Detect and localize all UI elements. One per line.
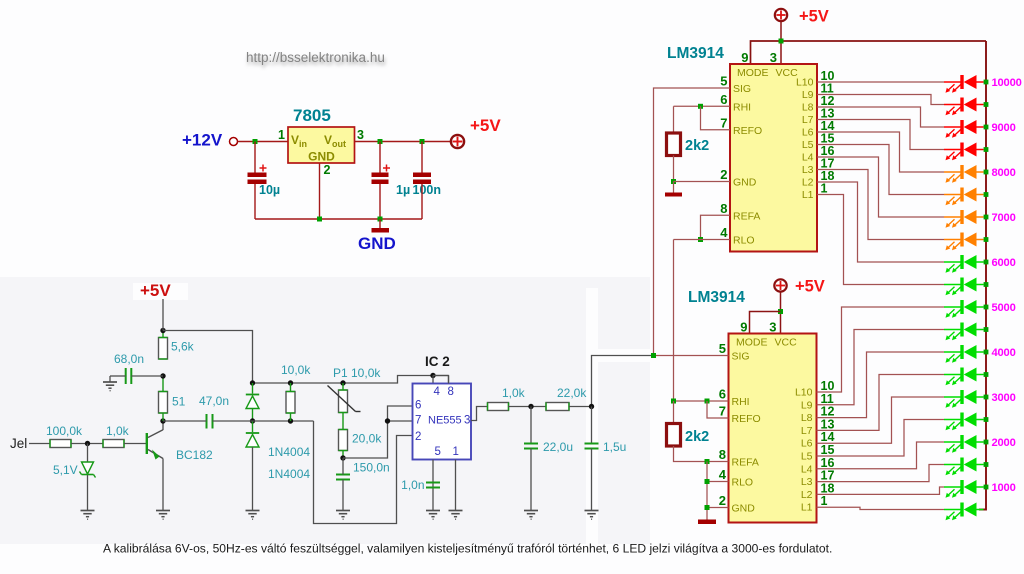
wire L9 to LED2 — [817, 95, 944, 105]
LED D16 — [944, 413, 984, 431]
capacitor C 10u — [248, 173, 267, 178]
LED D6 — [944, 188, 984, 206]
svg-text:L2: L2 — [802, 177, 814, 189]
svg-text:LM3914: LM3914 — [667, 45, 724, 62]
junction LED D7 anode — [984, 215, 989, 220]
+5V terminal upper — [775, 9, 787, 21]
junction LED D17 anode — [984, 440, 989, 445]
LED D20 — [944, 503, 984, 521]
wire pin 6 jog — [388, 406, 413, 421]
svg-text:SIG: SIG — [733, 83, 751, 95]
junction SIG node — [651, 353, 656, 358]
wire 5,6k top lead — [162, 331, 164, 338]
junction RLO lower — [705, 479, 710, 484]
resistor R5 5,6k — [159, 338, 168, 360]
wire L3 to LED18 — [817, 465, 945, 482]
svg-text:4: 4 — [720, 225, 728, 240]
wire 7805 gnd stub — [319, 163, 321, 219]
junction LED D4 anode — [984, 147, 989, 152]
junction RHI lower — [671, 399, 676, 404]
svg-text:3: 3 — [464, 415, 470, 427]
svg-text:L10: L10 — [795, 387, 813, 399]
svg-text:RHI: RHI — [733, 101, 751, 113]
wire R2 bottom lead — [674, 446, 729, 462]
wire L8 to LED3 — [817, 107, 944, 127]
junction vcc lower — [778, 309, 783, 314]
svg-text:L9: L9 — [801, 399, 813, 411]
diode D21 zener 5,1V — [82, 462, 94, 474]
wire R2 top lead — [673, 401, 675, 424]
svg-text:A kalibrálása 6V-os, 50Hz-es v: A kalibrálása 6V-os, 50Hz-es váltó feszü… — [103, 542, 832, 556]
svg-text:GND: GND — [733, 177, 757, 189]
svg-text:1: 1 — [278, 128, 285, 142]
wire RHI lower — [674, 400, 729, 402]
wire R9 to node — [508, 406, 546, 408]
junction LED D13 anode — [984, 350, 989, 355]
wire to C 1u — [379, 142, 381, 173]
junction node A r10k — [288, 380, 293, 385]
svg-text:22,0k: 22,0k — [557, 386, 587, 400]
wire C10u to rail — [254, 184, 256, 219]
wire R3 to node — [71, 443, 103, 445]
ground 150n cap — [336, 511, 350, 520]
junction node A diode — [250, 380, 255, 385]
svg-text:http://bsselektronika.hu: http://bsselektronika.hu — [246, 50, 385, 65]
svg-text:L9: L9 — [802, 89, 814, 101]
svg-text:150,0n: 150,0n — [353, 461, 390, 475]
svg-text:10000: 10000 — [992, 77, 1022, 89]
junction LED D8 anode — [984, 237, 989, 242]
junction LED D12 anode — [984, 327, 989, 332]
+5V terminal lower — [774, 279, 786, 291]
wire D11 bottom lead — [252, 409, 254, 422]
wire 51 bottom lead — [162, 414, 164, 422]
svg-text:VCC: VCC — [775, 337, 798, 349]
wire RLO lower — [707, 481, 729, 483]
LED D4 — [944, 143, 984, 161]
svg-text:2: 2 — [719, 493, 726, 508]
junction RHI-REFO lower — [705, 399, 710, 404]
junction input node — [253, 139, 258, 144]
resistor R2 2k2 lower — [667, 424, 681, 447]
capacitor C7 150,0n — [336, 475, 350, 480]
capacitor C 100n — [413, 173, 431, 178]
LED D15 — [944, 390, 984, 408]
wire +5V down — [162, 299, 164, 331]
junction C1u top — [378, 139, 383, 144]
ground diode chain — [246, 511, 260, 520]
LED D18 — [944, 458, 984, 476]
svg-text:10,0k: 10,0k — [281, 363, 311, 377]
wire C10 top — [591, 407, 593, 444]
wire R4 to base — [124, 443, 146, 445]
svg-text:L5: L5 — [801, 451, 813, 463]
capacitor C 1u — [372, 173, 389, 178]
wire GND pin upper — [674, 181, 731, 183]
+5V output terminal — [451, 135, 464, 148]
svg-text:1N4004: 1N4004 — [268, 467, 310, 481]
junction LED D18 anode — [984, 462, 989, 467]
wire L4 to LED17 — [817, 442, 945, 469]
wire Jel input — [29, 443, 50, 445]
wire SIG lower red — [654, 355, 729, 357]
svg-text:4: 4 — [719, 467, 727, 482]
svg-text:8: 8 — [720, 201, 727, 216]
svg-text:3: 3 — [770, 50, 777, 65]
junction timing node — [340, 455, 345, 460]
wire 555 pin3 out — [471, 407, 487, 421]
wire 555 pin8 stub — [448, 376, 450, 384]
svg-text:20,0k: 20,0k — [352, 432, 382, 446]
U1 LM3914 box — [730, 64, 817, 252]
resistor R6 51 — [159, 392, 168, 414]
wire timing to C7 — [342, 458, 344, 475]
junction filter node 1 — [528, 404, 533, 409]
junction LED D15 anode — [984, 395, 989, 400]
junction LED D16 anode — [984, 417, 989, 422]
junction +5V rail node — [160, 328, 165, 333]
P1 wiper arrow — [328, 386, 356, 412]
ground zener — [81, 511, 95, 520]
wire collector — [162, 421, 164, 430]
svg-text:2: 2 — [415, 431, 421, 443]
svg-text:REFO: REFO — [732, 413, 761, 425]
input terminal circle — [230, 138, 238, 146]
junction LED D2 anode — [984, 102, 989, 107]
ground 555 pin1 — [449, 511, 463, 520]
junction pin6-7 — [385, 418, 390, 423]
junction LED D5 anode — [984, 170, 989, 175]
wire R10 to node — [569, 406, 592, 408]
gnd symbol stub — [379, 219, 381, 228]
GND bar upper — [665, 193, 682, 197]
junction R1-GND upper — [671, 179, 676, 184]
wire RHI upper — [674, 105, 731, 107]
svg-text:SIG: SIG — [732, 351, 750, 363]
svg-text:9000: 9000 — [992, 122, 1016, 134]
svg-text:L10: L10 — [796, 77, 814, 89]
wire L6 to LED5 — [817, 132, 944, 172]
svg-text:5,1V: 5,1V — [53, 463, 78, 477]
wire C10 to ground — [591, 449, 593, 511]
capacitor C9 22,0u — [524, 444, 538, 449]
wire L3 to LED8 — [817, 170, 944, 240]
svg-text:8: 8 — [448, 386, 454, 398]
wire +5V stub lower — [780, 293, 782, 334]
wire 7805 output — [355, 141, 451, 143]
wire P1 top lead — [342, 383, 344, 390]
svg-text:2: 2 — [324, 163, 331, 177]
wire zener top lead — [87, 444, 89, 463]
svg-text:8000: 8000 — [992, 167, 1016, 179]
wire L7 to LED4 — [817, 120, 944, 150]
GND bar lower — [698, 520, 716, 525]
svg-text:+5V: +5V — [470, 116, 501, 135]
wire L5 to LED16 — [817, 420, 945, 457]
svg-text:+5V: +5V — [795, 278, 825, 296]
resistor R4 1,0k — [103, 440, 124, 448]
LED D8 — [944, 233, 984, 251]
wire R7 bottom lead — [290, 413, 292, 421]
svg-text:L1: L1 — [802, 189, 814, 201]
IC1 7805 box — [288, 127, 355, 163]
junction LED D1 anode — [984, 80, 989, 85]
wire RLO upper — [674, 239, 731, 241]
svg-text:1N4004: 1N4004 — [268, 445, 310, 459]
svg-text:L3: L3 — [801, 476, 813, 488]
wire P1 to R8 — [342, 413, 344, 430]
resistor R1 2k2 upper — [667, 133, 681, 156]
svg-text:100n: 100n — [413, 183, 442, 197]
svg-text:L3: L3 — [802, 164, 814, 176]
svg-text:6000: 6000 — [992, 257, 1016, 269]
junction rail gnd — [378, 217, 383, 222]
svg-text:L8: L8 — [802, 102, 814, 114]
resistor R7 10,0k — [286, 392, 295, 414]
svg-text:5: 5 — [719, 341, 726, 356]
wire node B to pin 2 — [314, 421, 413, 524]
white patch around vertical wire x591 — [586, 288, 598, 544]
wire 555 pin5 — [432, 460, 434, 511]
wire zener bottom lead — [87, 475, 89, 511]
LED D14 — [944, 368, 984, 386]
svg-text:MODE: MODE — [737, 67, 769, 79]
svg-text:1,0n: 1,0n — [401, 478, 424, 492]
LED D12 — [944, 323, 984, 341]
wire +5V horizontal net — [751, 41, 987, 64]
svg-text:7: 7 — [719, 404, 726, 419]
svg-text:MODE: MODE — [736, 337, 768, 349]
svg-text:REFA: REFA — [732, 457, 759, 469]
svg-text:8: 8 — [719, 447, 726, 462]
svg-text:4: 4 — [434, 386, 441, 398]
junction 68n node — [160, 373, 165, 378]
svg-text:1,0k: 1,0k — [106, 424, 130, 438]
wire 51 to 68n node — [162, 376, 164, 392]
svg-text:L6: L6 — [802, 127, 814, 139]
svg-text:L4: L4 — [801, 463, 813, 475]
resistor R3 100,0k — [50, 440, 71, 448]
wire L8 to LED13 — [817, 352, 945, 418]
svg-text:7000: 7000 — [992, 212, 1016, 224]
diode D12 1N4004 — [246, 432, 259, 434]
diode D11 1N4004 — [246, 394, 259, 396]
LED D13 — [944, 345, 984, 363]
svg-text:47,0n: 47,0n — [199, 394, 229, 408]
junction LED D9 anode — [984, 260, 989, 265]
svg-text:LM3914: LM3914 — [688, 289, 745, 306]
wire SIG upper — [654, 88, 731, 356]
svg-text:22,0u: 22,0u — [543, 440, 573, 454]
LED D1 — [944, 75, 984, 93]
svg-text:100,0k: 100,0k — [46, 424, 83, 438]
wire node B — [253, 420, 314, 422]
svg-text:RHI: RHI — [732, 396, 750, 408]
svg-text:51: 51 — [172, 395, 186, 409]
wire junction down to C 10u — [254, 142, 256, 173]
U2 LM3914 box — [729, 334, 817, 523]
svg-text:1,0k: 1,0k — [502, 386, 526, 400]
svg-text:1: 1 — [821, 494, 828, 508]
junction LED D10 anode — [984, 282, 989, 287]
LED D5 — [944, 165, 984, 183]
wire L6 to LED15 — [817, 397, 945, 443]
wire L7 to LED14 — [817, 375, 945, 431]
svg-text:NE555: NE555 — [428, 415, 462, 427]
svg-text:7805: 7805 — [293, 106, 331, 125]
junction LED D11 anode — [984, 305, 989, 310]
ground 1,5u cap — [585, 511, 599, 520]
white patch around SIG wire — [586, 349, 650, 362]
capacitor C6 47,0n — [206, 414, 208, 429]
svg-text:GND: GND — [308, 150, 335, 164]
ground 555 pin5 — [426, 511, 440, 520]
svg-text:9: 9 — [741, 50, 748, 65]
resistor R9 1,0k — [488, 403, 509, 411]
wire REFO branch upper — [701, 106, 731, 130]
junction LED D6 anode — [984, 192, 989, 197]
wire C100n to rail — [421, 184, 423, 219]
junction node B diode — [250, 418, 255, 423]
wire +5V rail upper — [780, 22, 782, 64]
wire MODE branch lower — [750, 312, 781, 334]
wire input to junction — [238, 141, 289, 143]
svg-text:3: 3 — [769, 320, 776, 335]
svg-text:1µ: 1µ — [396, 183, 410, 197]
wire +5V rail right — [163, 331, 253, 384]
svg-text:3000: 3000 — [992, 392, 1016, 404]
wire L1 to LED20 — [817, 507, 945, 509]
ground rail — [255, 218, 422, 220]
wire L10 to LED1 — [817, 81, 944, 83]
svg-text:2: 2 — [720, 167, 727, 182]
svg-text:GND: GND — [358, 234, 396, 253]
svg-text:L1: L1 — [801, 502, 813, 514]
svg-text:5: 5 — [435, 446, 441, 458]
svg-text:1: 1 — [453, 446, 459, 458]
svg-text:+12V: +12V — [182, 131, 223, 150]
wire gnd chain lower — [706, 462, 708, 520]
wire collector to C6 — [163, 420, 207, 422]
wire D12 to ground — [252, 447, 254, 511]
wire emitter down — [162, 459, 164, 511]
wire to C 100n — [421, 142, 423, 173]
wire SIG net lower — [592, 356, 654, 407]
junction REFA-gnd lower — [705, 459, 710, 464]
white patch behind +5V label — [133, 283, 188, 300]
svg-text:6: 6 — [720, 92, 727, 107]
junction LED D19 anode — [984, 485, 989, 490]
svg-text:L7: L7 — [801, 425, 813, 437]
svg-text:5: 5 — [720, 74, 727, 89]
svg-text:6: 6 — [719, 387, 726, 402]
resistor R10 22,0k — [546, 403, 569, 411]
junction node A pot — [340, 380, 345, 385]
resistor R8 20,0k — [339, 430, 348, 451]
wire C1u to rail — [379, 184, 381, 219]
watermark url text — [246, 50, 386, 68]
svg-text:9: 9 — [740, 320, 747, 335]
wire gnd stub upper — [673, 182, 675, 193]
junction GND lower — [705, 505, 710, 510]
svg-text:L6: L6 — [801, 438, 813, 450]
wire L9 to LED12 — [817, 330, 945, 405]
svg-text:4000: 4000 — [992, 347, 1016, 359]
svg-text:RLO: RLO — [732, 477, 754, 489]
scan region background — [0, 277, 650, 544]
wire C9 to ground — [530, 449, 532, 511]
junction LED D14 anode — [984, 372, 989, 377]
svg-text:L5: L5 — [802, 139, 814, 151]
wire L2 to LED9 — [817, 182, 944, 262]
svg-text:68,0n: 68,0n — [114, 352, 144, 366]
wire L1 to LED10 — [817, 195, 944, 285]
wire R1 top lead — [673, 106, 675, 133]
svg-text:REFA: REFA — [733, 210, 760, 222]
wire D11 top lead — [252, 383, 254, 394]
wire R1 bottom lead — [673, 156, 675, 182]
wire REFA upper — [701, 215, 731, 239]
junction RHI-REFO upper — [698, 104, 703, 109]
wire D12 top lead — [252, 421, 254, 432]
junction filter node 2 — [589, 404, 594, 409]
svg-text:1000: 1000 — [992, 482, 1016, 494]
svg-text:6: 6 — [415, 400, 421, 412]
svg-text:L4: L4 — [802, 152, 814, 164]
junction vcc upper — [779, 39, 784, 44]
junction input node — [85, 441, 90, 446]
wire L2 to LED19 — [817, 487, 945, 494]
svg-text:5000: 5000 — [992, 302, 1016, 314]
svg-text:GND: GND — [732, 503, 756, 515]
svg-text:VCC: VCC — [776, 67, 799, 79]
svg-text:P1 10,0k: P1 10,0k — [333, 366, 381, 380]
LED D19 — [944, 480, 984, 498]
wire GND pin lower — [707, 507, 729, 509]
svg-text:+5V: +5V — [799, 8, 829, 26]
LED D9 — [944, 255, 984, 273]
wire RLO down to lower RHI — [673, 240, 675, 402]
capacitor C10 1,5u — [585, 444, 599, 449]
LED D10 — [944, 278, 984, 296]
svg-text:7: 7 — [415, 415, 421, 427]
LED D2 — [944, 98, 984, 116]
svg-text:1: 1 — [821, 182, 828, 196]
LED D11 — [944, 300, 984, 318]
LED D3 — [944, 120, 984, 138]
LED D17 — [944, 435, 984, 453]
svg-text:2k2: 2k2 — [685, 138, 709, 154]
junction 555 pin4 — [430, 373, 435, 378]
wire 555 pin4 stub — [432, 376, 434, 384]
svg-text:L2: L2 — [801, 489, 813, 501]
transistor Q1 BC182 — [146, 433, 148, 454]
junction node B r10k — [288, 418, 293, 423]
LED +5V bus — [979, 41, 986, 510]
svg-text:+5V: +5V — [140, 281, 171, 300]
wire C7 to ground — [342, 480, 344, 511]
wire C9 top — [530, 407, 532, 444]
wire pins 4-8 top — [433, 375, 449, 377]
wire R8 bottom lead — [342, 451, 344, 459]
wire L4 to LED7 — [817, 157, 944, 217]
svg-text:5,6k: 5,6k — [171, 340, 195, 354]
svg-text:3: 3 — [357, 128, 364, 142]
ground 68n cap — [103, 382, 117, 391]
svg-text:L7: L7 — [802, 114, 814, 126]
wire L10 to LED11 — [817, 307, 945, 392]
svg-text:RLO: RLO — [733, 235, 755, 247]
